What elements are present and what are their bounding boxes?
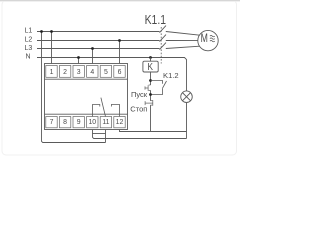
svg-text:Пуск: Пуск [131, 90, 148, 99]
wire L2 bus [37, 40, 160, 42]
svg-text:L2: L2 [25, 36, 33, 43]
wire L3 to terminal 4 [92, 49, 94, 64]
svg-text:4: 4 [90, 69, 94, 76]
terminal 4 [87, 66, 98, 78]
node N to coil K junction [149, 56, 152, 59]
node L3-terminal4 junction [91, 47, 94, 50]
wire terminal 11 to L1 bottom run [105, 130, 107, 143]
node branch top junction [149, 79, 152, 82]
terminal 8 [59, 117, 70, 128]
wire terminal 10 to stop circuit [93, 130, 187, 139]
pushbutton Stop (NC) [145, 100, 153, 106]
terminal 5 [100, 66, 111, 78]
svg-text:12: 12 [116, 119, 124, 126]
svg-text:9: 9 [77, 119, 81, 126]
terminal 11 [100, 117, 111, 128]
wire L1 control drop and bottom run [42, 32, 106, 143]
contactor K1.1 pole 2 [160, 35, 167, 42]
node L1-control junction [40, 30, 43, 33]
svg-text:L3: L3 [25, 45, 33, 52]
pushbutton Pusk (start, NO) [145, 85, 151, 91]
terminal 2 [59, 66, 70, 78]
wire N to terminal 3 [78, 58, 80, 64]
relay contact fixed throw terminal 12 [111, 105, 119, 117]
svg-text:L1: L1 [25, 28, 33, 35]
contactor K1.1 pole 1 [160, 26, 167, 33]
relay contact arm from terminal 11 [101, 98, 106, 117]
svg-text:Стоп: Стоп [130, 105, 147, 114]
svg-text:K1.2: K1.2 [163, 71, 179, 80]
wire lamp bottom lead [186, 102, 188, 138]
wire L1 bus [37, 31, 160, 33]
svg-text:3: 3 [77, 69, 81, 76]
contact K1.2 branch [151, 81, 167, 95]
contactor linkage dashed [160, 27, 162, 64]
svg-text:8: 8 [63, 119, 67, 126]
svg-text:5: 5 [104, 69, 108, 76]
svg-text:1: 1 [50, 69, 54, 76]
contactor K1.1 pole 3 [160, 43, 167, 50]
lamp HL1 [181, 91, 193, 103]
wire Stop button to terminal 12 node [150, 105, 152, 131]
relay device outline [45, 64, 128, 130]
motor 3-phase tilde symbol [210, 35, 215, 41]
relay contact fixed throw terminal 10 [93, 105, 100, 117]
terminal 6 [114, 66, 125, 78]
terminal 10 [87, 117, 98, 128]
node N-terminal3 junction [77, 56, 80, 59]
terminal 3 [73, 66, 84, 78]
svg-text:7: 7 [50, 119, 54, 126]
terminal 9 [73, 117, 84, 128]
wire N to coil K [150, 58, 152, 62]
wire coil K to branch node [150, 72, 152, 85]
wire between buttons [150, 90, 152, 100]
node L2-terminal6 junction [118, 39, 121, 42]
wire jumper terminal 10 to terminal 11 [93, 133, 106, 135]
wire L3 bus [37, 48, 160, 50]
wire L1 to terminal 1 [51, 32, 53, 64]
node L1-terminal1 junction [50, 30, 53, 33]
page frame [2, 1, 237, 156]
wire contactor to motor [166, 32, 200, 49]
terminal 7 [46, 117, 57, 128]
svg-text:10: 10 [88, 119, 96, 126]
wire terminal 12 to lamp node [120, 130, 187, 132]
svg-text:M: M [201, 33, 208, 46]
terminal 1 [46, 66, 57, 78]
wire N bus [37, 58, 187, 92]
terminal 12 [114, 117, 125, 128]
svg-text:2: 2 [63, 69, 67, 76]
motor M circle [198, 30, 218, 50]
svg-text:11: 11 [102, 119, 109, 126]
svg-text:K1.1: K1.1 [145, 14, 166, 27]
node branch bottom junction [149, 93, 152, 96]
wire L2 to terminal 6 [119, 41, 121, 64]
svg-text:6: 6 [118, 69, 122, 76]
svg-text:K: K [148, 61, 154, 72]
coil K [143, 61, 158, 72]
svg-text:N: N [26, 54, 31, 61]
